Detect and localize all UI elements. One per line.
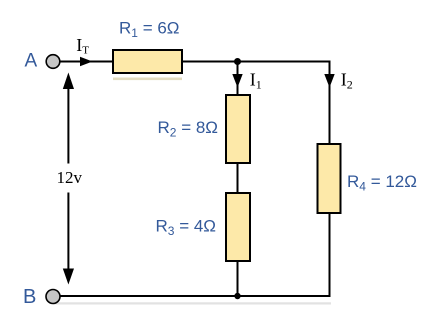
current arrow IT xyxy=(80,57,93,66)
wire: resistor R4 to bottom wire xyxy=(329,213,331,297)
wire: resistor R1 to top-right corner xyxy=(182,61,330,63)
node B terminal xyxy=(46,290,60,304)
svg-text:R2 = 8Ω: R2 = 8Ω xyxy=(158,118,219,140)
wire: resistor R3 to bottom junction xyxy=(237,261,239,296)
wire: node A to resistor R1 xyxy=(59,61,113,63)
svg-text:R3 = 4Ω: R3 = 4Ω xyxy=(156,217,217,239)
resistor R2 xyxy=(226,95,250,163)
junction dot bottom xyxy=(234,293,240,299)
resistor R1 shadow xyxy=(113,78,182,81)
svg-text:B: B xyxy=(23,286,36,308)
resistor R1 xyxy=(113,50,182,73)
current arrow I1 xyxy=(232,74,242,88)
current arrow I2 xyxy=(324,74,334,88)
svg-text:R1 = 6Ω: R1 = 6Ω xyxy=(119,19,180,41)
svg-text:12v: 12v xyxy=(57,168,83,187)
resistor R3 xyxy=(226,193,250,261)
wire: node B along bottom to right corner xyxy=(60,295,331,297)
svg-text:R4 = 12Ω: R4 = 12Ω xyxy=(347,172,417,194)
bottom wire shadow xyxy=(53,302,331,304)
wire: resistor R2 to resistor R3 xyxy=(237,163,239,193)
voltage arrowhead down xyxy=(63,269,74,285)
voltage arrow line upper segment xyxy=(67,82,69,164)
svg-text:A: A xyxy=(25,51,38,72)
node A terminal xyxy=(46,55,60,69)
resistor R4 xyxy=(318,144,341,213)
voltage arrowhead up xyxy=(63,73,74,90)
wire: top-right corner down to resistor R4 xyxy=(329,61,331,145)
voltage arrow line lower segment xyxy=(67,193,69,273)
wire: top junction down to resistor R2 xyxy=(237,62,239,96)
junction dot top xyxy=(234,58,241,65)
